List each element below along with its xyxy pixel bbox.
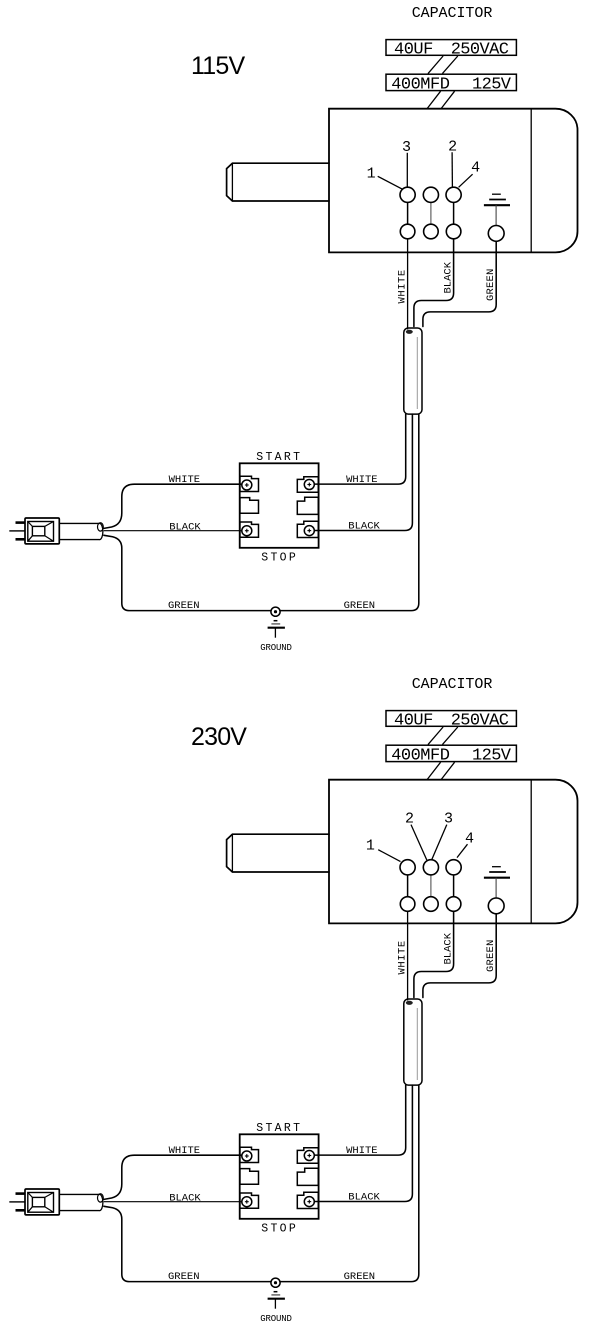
svg-text:4: 4	[471, 160, 480, 177]
motor shaft (bottom)	[227, 834, 329, 872]
motor end-bell divider (bottom)	[530, 780, 532, 924]
cable sleeve (top)	[404, 328, 422, 414]
terminal pair link T2 (bottom)	[430, 875, 432, 897]
leader line box2-box1 left (bottom)	[428, 727, 443, 745]
power cord (bottom)	[59, 1194, 103, 1211]
motor ground terminal circle (top)	[488, 226, 504, 242]
svg-text:3: 3	[444, 810, 453, 827]
motor body (top)	[329, 109, 578, 253]
wire white motor to sleeve (bottom)	[407, 912, 409, 1001]
wire green motor to sleeve (top)	[423, 241, 496, 326]
leader pin 1 (bottom)	[378, 850, 400, 862]
wire green motor to sleeve (bottom)	[423, 914, 496, 998]
plug ground pin (bottom)	[9, 1201, 25, 1203]
leader pin 3 (top)	[406, 153, 408, 188]
svg-text:125V: 125V	[472, 76, 512, 95]
svg-text:GREEN: GREEN	[344, 600, 376, 612]
ground junction dot (top)	[274, 610, 277, 613]
leader line motor-box2 left (top)	[427, 91, 440, 108]
cable end blob in sleeve (bottom)	[406, 1001, 413, 1005]
terminal circle 3 top (top)	[446, 187, 461, 202]
switch tab bottom-right (top)	[297, 521, 318, 537]
wire green sleeve to plug (top)	[104, 414, 419, 610]
svg-text:STOP: STOP	[261, 1222, 298, 1235]
svg-text:WHITE: WHITE	[346, 1145, 378, 1157]
wire green sleeve to plug (bottom)	[104, 1085, 419, 1282]
switch tab top-left (top)	[240, 476, 259, 491]
svg-text:40UF: 40UF	[394, 711, 433, 730]
svg-text:40UF: 40UF	[394, 40, 433, 59]
terminal circle 3 bottom (top)	[446, 224, 461, 239]
switch tab middle-right (bottom)	[297, 1168, 318, 1185]
leader line motor-box2 right (top)	[441, 91, 454, 108]
wire white plug to switch (top)	[104, 484, 242, 528]
leader pin 4 (top)	[459, 174, 473, 187]
motor ground symbol (bottom)	[484, 867, 510, 898]
screw terminal bottom-left (top)	[242, 526, 252, 536]
svg-text:STOP: STOP	[261, 551, 298, 564]
plug prong bottom (bottom)	[16, 1209, 26, 1212]
terminal circle 1 top (bottom)	[400, 860, 415, 875]
svg-text:250VAC: 250VAC	[451, 711, 509, 730]
svg-text:BLACK: BLACK	[348, 520, 380, 532]
svg-text:125V: 125V	[472, 747, 512, 766]
switch SW1 body (bottom)	[240, 1134, 319, 1219]
terminal pair link T3 (bottom)	[453, 875, 455, 897]
wire black motor to sleeve (bottom)	[414, 912, 454, 998]
svg-text:1: 1	[367, 166, 376, 183]
leader line motor-box2 left (bottom)	[427, 762, 440, 779]
terminal circle 3 bottom (bottom)	[446, 897, 461, 912]
svg-text:GREEN: GREEN	[485, 939, 497, 972]
screw terminal top-left (bottom)	[242, 1151, 252, 1161]
screw terminal top-right (top)	[304, 480, 314, 490]
screw terminal bottom-right (bottom)	[304, 1197, 314, 1207]
motor shaft (top)	[227, 163, 329, 201]
wire white sleeve to switch (top)	[314, 414, 406, 484]
leader pin 4 (bottom)	[457, 844, 468, 857]
leader pin 2 (top)	[451, 152, 453, 187]
svg-text:WHITE: WHITE	[169, 474, 201, 486]
switch tab middle-left (bottom)	[240, 1169, 259, 1185]
ground junction circle (bottom)	[271, 1278, 280, 1287]
terminal pair link T1 (top)	[407, 202, 409, 224]
switch tab top-right (bottom)	[297, 1148, 318, 1164]
motor body (bottom)	[329, 780, 578, 924]
terminal circle 2 top (top)	[423, 187, 438, 202]
svg-text:GROUND: GROUND	[260, 1314, 292, 1324]
cable sleeve (bottom)	[404, 999, 422, 1085]
earth ground symbol (bottom)	[268, 1292, 285, 1309]
earth ground symbol (top)	[268, 621, 285, 638]
motor shaft end step (bottom)	[231, 834, 233, 872]
svg-text:CAPACITOR: CAPACITOR	[412, 676, 493, 693]
wire white plug to switch (bottom)	[104, 1155, 242, 1199]
svg-text:BLACK: BLACK	[348, 1191, 380, 1203]
svg-text:GREEN: GREEN	[168, 600, 200, 612]
screw terminal bottom-left (bottom)	[242, 1197, 252, 1207]
svg-text:WHITE: WHITE	[396, 940, 408, 974]
switch tab middle-right (top)	[297, 497, 318, 514]
capacitor value box 40UF 250VAC (bottom)	[386, 711, 516, 727]
leader line box2-box1 left (top)	[428, 56, 443, 74]
terminal circle 1 top (top)	[400, 187, 415, 202]
capacitor value box 400MFD 125V (top)	[386, 74, 516, 90]
motor end-bell divider (top)	[530, 109, 532, 253]
leader line box2-box1 right (top)	[442, 56, 457, 74]
terminal circle 2 bottom (bottom)	[424, 897, 439, 912]
leader pin 1 (top)	[378, 176, 403, 189]
svg-text:230V: 230V	[191, 723, 247, 751]
ground junction dot (bottom)	[274, 1281, 277, 1284]
svg-text:START: START	[256, 451, 302, 464]
wire white sleeve to switch (bottom)	[314, 1085, 406, 1155]
leader line box2-box1 right (bottom)	[442, 727, 457, 745]
terminal pair link T1 (bottom)	[407, 875, 409, 897]
switch SW1 body (top)	[240, 463, 319, 548]
terminal pair link T2 (top)	[430, 202, 432, 224]
power cord (top)	[59, 523, 103, 540]
svg-text:BLACK: BLACK	[169, 1192, 201, 1204]
ground junction circle (top)	[271, 607, 280, 616]
switch tab top-left (bottom)	[240, 1147, 259, 1162]
switch tab bottom-right (bottom)	[297, 1192, 318, 1208]
terminal circle 2 bottom (top)	[424, 224, 439, 239]
capacitor value box 40UF 250VAC (top)	[386, 40, 516, 56]
wire white motor to sleeve (top)	[407, 239, 409, 330]
power plug (bottom)	[25, 1189, 59, 1215]
svg-text:START: START	[256, 1122, 302, 1135]
terminal circle 2 top (bottom)	[423, 860, 438, 875]
leader pin 3 (bottom)	[432, 825, 447, 860]
plug prong top (bottom)	[16, 1192, 26, 1195]
svg-text:3: 3	[402, 139, 411, 156]
svg-text:GROUND: GROUND	[260, 643, 292, 653]
screw terminal top-right (bottom)	[304, 1151, 314, 1161]
leader pin 2 (bottom)	[411, 825, 427, 860]
svg-text:115V: 115V	[191, 52, 245, 80]
terminal circle 1 bottom (bottom)	[400, 897, 415, 912]
leader line motor-box2 right (bottom)	[441, 762, 454, 779]
terminal pair link T3 (top)	[453, 202, 455, 224]
wire black plug to switch (bottom)	[104, 1201, 242, 1203]
sleeve inner shading line (top)	[416, 337, 418, 409]
wire black sleeve to switch (bottom)	[314, 1085, 412, 1201]
power plug (top)	[25, 518, 59, 544]
wire black plug to switch (top)	[104, 530, 242, 532]
plug ground pin (top)	[9, 530, 25, 532]
wire black sleeve to switch (top)	[314, 414, 412, 530]
wire black motor to sleeve (top)	[414, 239, 454, 327]
plug prong top (top)	[16, 521, 26, 524]
motor shaft end step (top)	[231, 163, 233, 201]
svg-text:BLACK: BLACK	[169, 521, 201, 533]
plug prong bottom (top)	[16, 538, 26, 541]
screw terminal bottom-right (top)	[304, 526, 314, 536]
svg-text:GREEN: GREEN	[485, 268, 497, 301]
svg-text:WHITE: WHITE	[169, 1145, 201, 1157]
switch tab bottom-left (top)	[240, 522, 259, 537]
svg-text:GREEN: GREEN	[344, 1271, 376, 1283]
switch tab bottom-left (bottom)	[240, 1193, 259, 1208]
svg-text:WHITE: WHITE	[346, 474, 378, 486]
terminal circle 1 bottom (top)	[400, 224, 415, 239]
switch tab middle-left (top)	[240, 498, 259, 514]
svg-text:1: 1	[366, 838, 375, 855]
screw terminal top-left (top)	[242, 480, 252, 490]
svg-text:BLACK: BLACK	[443, 261, 455, 293]
terminal circle 3 top (bottom)	[446, 860, 461, 875]
switch tab top-right (top)	[297, 477, 318, 493]
svg-text:BLACK: BLACK	[443, 932, 455, 964]
svg-text:GREEN: GREEN	[168, 1271, 200, 1283]
motor ground symbol (top)	[484, 194, 510, 225]
motor ground terminal circle (bottom)	[488, 898, 504, 914]
cable end blob in sleeve (top)	[406, 330, 413, 334]
sleeve inner shading line (bottom)	[416, 1008, 418, 1080]
svg-text:2: 2	[405, 810, 414, 827]
capacitor value box 400MFD 125V (bottom)	[386, 745, 516, 761]
svg-text:WHITE: WHITE	[396, 269, 408, 303]
svg-text:CAPACITOR: CAPACITOR	[412, 5, 493, 22]
svg-text:250VAC: 250VAC	[451, 40, 509, 59]
